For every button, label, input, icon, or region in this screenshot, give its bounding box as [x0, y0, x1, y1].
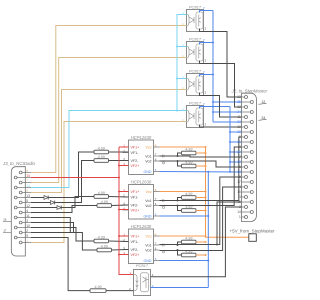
wire D2 to R2: [55, 161, 94, 203]
series resistor R6 4.99: [97, 244, 112, 252]
wire U4 collector to blue bus: [200, 107, 231, 109]
junction red: [118, 177, 120, 179]
wire J3 pin15 +5V red: [31, 177, 119, 179]
wire blue bus to J2: [230, 151, 242, 153]
wire pull-up to U6 Vo1: [178, 198, 182, 201]
svg-text:22: 22: [237, 130, 241, 134]
wire U7 Vo2 to J2 pin4: [160, 187, 242, 251]
J2 shell pin 24 mark: [259, 116, 267, 120]
J2 pin 7: [239, 155, 247, 159]
wire R3 to U6 VF1-: [109, 196, 129, 199]
J2 pin 9: [239, 135, 247, 139]
junction GND: [207, 260, 209, 262]
J3 pin 8: [19, 169, 31, 174]
wire blue bus to J2 pin24: [213, 111, 242, 113]
wire pull-up to +5V bus: [196, 165, 206, 167]
J2 pin 12: [237, 105, 247, 109]
svg-text:VF1-: VF1-: [131, 151, 140, 155]
svg-text:PC817: PC817: [189, 37, 202, 42]
junction blue bus: [212, 106, 214, 108]
wire J3 pin2 to R6: [31, 233, 97, 251]
J2 pin 10: [237, 125, 247, 129]
svg-text:Vo1: Vo1: [145, 199, 151, 203]
optocoupler U1 PC817: [181, 5, 204, 32]
wire cyan bus to U3 anode: [177, 78, 187, 80]
svg-text:3: 3: [239, 195, 241, 199]
pull-up resistor 4.99 (U5 Vo2): [182, 160, 197, 168]
svg-text:19: 19: [237, 160, 241, 164]
wire pull-up to +5V bus: [196, 254, 206, 256]
svg-text:HCPL2630: HCPL2630: [131, 179, 152, 184]
svg-text:18: 18: [237, 170, 241, 174]
svg-text:Vo1: Vo1: [145, 154, 151, 158]
junction: [177, 205, 179, 207]
svg-text:4.99: 4.99: [98, 155, 105, 159]
wire J3 pin7 to U2 LED (tan): [31, 58, 187, 183]
junction: [177, 244, 179, 246]
svg-text:6: 6: [26, 189, 28, 193]
series resistor R2 4.99: [94, 155, 109, 163]
opto-isolator U7 HCPL2630: [123, 224, 160, 264]
wire U7 Vo1 to J2 pin5: [160, 177, 242, 245]
wire U5 GND to J2 pin18 (GND): [160, 171, 242, 174]
blue bus B vertical: [229, 107, 231, 172]
bypass capacitor near U7 outputs: [161, 244, 166, 253]
red branch to chip anode: [119, 254, 129, 256]
J2 pin 11: [237, 115, 247, 119]
J2 pin 14: [237, 210, 253, 214]
J2 pin 1: [239, 215, 247, 219]
cyan bus vertical to U1: [177, 15, 187, 111]
J2 pin 17: [237, 180, 253, 184]
wire J3 pin12 to D3: [31, 207, 57, 209]
J3 pin 3: [19, 219, 31, 224]
red branch U5 VF1+: [119, 146, 129, 148]
J3 pin 11: [14, 214, 31, 219]
J3 pin 1: [19, 239, 31, 244]
junction cyan: [176, 46, 178, 48]
svg-text:1: 1: [204, 59, 206, 63]
pull-up resistor 4.99 (U5 Vo1): [182, 147, 197, 155]
svg-text:7: 7: [26, 179, 28, 183]
junction orange: [205, 210, 207, 212]
J3 pin 13: [14, 194, 31, 199]
series resistor R3 4.99: [94, 191, 109, 199]
wire pull-up to +5V bus: [196, 152, 206, 154]
optocoupler U2 PC817: [181, 37, 204, 64]
J2 pin 16: [237, 190, 253, 194]
J2 pin 5: [239, 175, 247, 179]
junction red: [118, 165, 120, 167]
svg-text:VF1+: VF1+: [131, 145, 140, 149]
pull-up resistor 4.99 (U6 Vo1): [182, 192, 197, 200]
J3 pin 5: [19, 199, 31, 204]
svg-text:VF1+: VF1+: [131, 190, 140, 194]
pull-up resistor 4.99 (U7 Vo1): [182, 236, 197, 244]
J2 pin 19: [237, 160, 253, 164]
svg-text:4.99: 4.99: [98, 235, 105, 239]
junction: [177, 155, 179, 157]
wire U6 GND to GND chain: [160, 215, 209, 217]
wire R5 to U7 VF1-: [109, 240, 129, 243]
J2 pin 18: [237, 170, 253, 174]
J2 pin 24: [237, 110, 253, 114]
svg-text:Vo2: Vo2: [145, 159, 151, 163]
junction GND: [207, 215, 209, 217]
J2 pin 8: [239, 145, 247, 149]
svg-text:11: 11: [26, 214, 30, 218]
svg-text:Vo1: Vo1: [145, 243, 151, 247]
wire J3 pin14 cyan to U4 anode: [31, 111, 187, 188]
wire J3 pin5 to D2: [31, 202, 51, 204]
junction blue: [229, 161, 231, 163]
junction blue: [229, 151, 231, 153]
wire D3 to R3: [61, 197, 94, 208]
wire D1 to R1: [48, 152, 94, 198]
J3 shell pin 17: [3, 229, 11, 233]
svg-text:8: 8: [26, 169, 28, 173]
red branch to chip anode: [119, 191, 129, 193]
pull-up resistor 4.99 (U6 Vo2): [182, 205, 197, 213]
svg-text:Vcc: Vcc: [146, 190, 152, 194]
svg-text:HCPL2630: HCPL2630: [131, 224, 152, 229]
svg-text:5: 5: [26, 199, 28, 203]
J2 pin 2: [239, 205, 247, 209]
wire U6 Vo1 to J2 pin9: [160, 137, 242, 201]
junction: [177, 249, 179, 251]
wire R7 to Q5 cathode: [106, 290, 134, 292]
wire pull-up to U6 Vo2: [178, 206, 182, 211]
svg-text:21: 21: [237, 140, 241, 144]
junction blue: [229, 141, 231, 143]
wire R1 to U5 VF1-: [109, 151, 129, 153]
J3 pin 12: [14, 204, 31, 209]
power port +5V_from_StepMaster: [230, 228, 276, 241]
svg-text:GND: GND: [144, 170, 152, 174]
svg-text:10: 10: [26, 224, 30, 228]
svg-text:VF2+: VF2+: [131, 253, 140, 257]
svg-text:20: 20: [237, 150, 241, 154]
J2 pin 25: [237, 100, 253, 104]
wire J3 pin10 to R5: [31, 228, 94, 242]
svg-text:VF1-: VF1-: [131, 195, 140, 199]
svg-text:Vcc: Vcc: [146, 234, 152, 238]
svg-text:PC817: PC817: [189, 69, 202, 74]
svg-text:9: 9: [239, 135, 241, 139]
J2 shell pin 12 mark: [259, 100, 267, 104]
svg-text:VF2-: VF2-: [131, 203, 140, 207]
wire R4 to U6 VF2-: [112, 204, 129, 207]
opto-isolator U6 HCPL2630: [123, 179, 160, 219]
J2 pin 21: [237, 140, 253, 144]
+5V_from_StepMaster orange bus: [206, 147, 249, 237]
bypass capacitor near U6 outputs: [161, 199, 166, 208]
wire pull-up to U7 Vo2: [178, 250, 182, 255]
wire blue bus to J2 pin25: [213, 101, 242, 103]
svg-text:14: 14: [26, 184, 30, 188]
svg-text:1: 1: [26, 239, 28, 243]
junction orange: [205, 197, 207, 199]
J3 pin 9: [14, 234, 31, 239]
svg-text:8: 8: [239, 145, 241, 149]
svg-text:17: 17: [3, 229, 7, 233]
svg-text:VF2+: VF2+: [131, 208, 140, 212]
svg-text:13: 13: [237, 95, 241, 99]
svg-text:10: 10: [237, 125, 241, 129]
J3 pin 10: [14, 224, 31, 229]
diode D1: [44, 196, 48, 200]
junction orange: [205, 254, 207, 256]
J2 pin 15: [237, 200, 253, 204]
junction: [216, 244, 218, 246]
junction GND: [207, 171, 209, 173]
svg-text:4.99: 4.99: [101, 244, 108, 248]
wire U5 Vo1 to J2 pin7: [160, 156, 242, 157]
svg-text:25: 25: [237, 100, 241, 104]
wire U6 Vcc to +5V bus: [160, 191, 206, 193]
svg-text:11: 11: [237, 115, 241, 119]
wire J3 pin8 to U1 LED (tan): [31, 26, 187, 173]
wire J3 pin4 to R4: [31, 206, 97, 213]
red branch to chip anode: [119, 235, 129, 237]
wire U3 emitter to J2 pin11: [200, 93, 242, 118]
svg-text:4: 4: [152, 273, 154, 277]
junction orange: [205, 191, 207, 193]
optocoupler Q5 PC817 (bottom): [134, 263, 151, 296]
svg-text:VF1-: VF1-: [131, 240, 140, 244]
svg-text:24: 24: [237, 110, 241, 114]
junction orange: [205, 165, 207, 167]
svg-text:HCPL2630: HCPL2630: [131, 135, 152, 140]
wire pull-up to +5V bus: [196, 210, 206, 212]
wire blue bus to J2: [230, 161, 242, 163]
J2 pin 23: [237, 120, 253, 124]
junction red: [118, 209, 120, 211]
wire U2 collector to blue bus: [200, 43, 214, 45]
wire cyan bus to U2 anode: [177, 46, 187, 48]
red bus vertical: [119, 147, 134, 275]
svg-text:4.99: 4.99: [185, 249, 192, 253]
series resistor R1 4.99: [94, 146, 109, 154]
junction orange: [205, 235, 207, 237]
wire U1 emitter to J2 pin13: [200, 29, 242, 98]
wire blue bus to J2: [230, 141, 242, 143]
svg-text:VF1+: VF1+: [131, 234, 140, 238]
svg-text:23: 23: [237, 120, 241, 124]
wire J3 pin9 to R7: [31, 238, 90, 291]
wire U4 emitter to J2 pin10: [200, 125, 242, 128]
wire pull-up to +5V bus: [196, 241, 206, 243]
wire pull-up to U5 Vo1: [178, 153, 182, 156]
wire Q5 collector to J2 pin2: [151, 207, 242, 277]
svg-text:Vcc: Vcc: [146, 145, 152, 149]
junction orange: [205, 241, 207, 243]
svg-text:4.99: 4.99: [98, 146, 105, 150]
wire U7 Vcc to +5V bus: [160, 235, 206, 237]
svg-text:4.99: 4.99: [185, 147, 192, 151]
svg-text:Vo2: Vo2: [145, 248, 151, 252]
svg-text:1: 1: [204, 27, 206, 31]
junction: [212, 101, 214, 103]
wire Q5 emitter to GND chain: [151, 287, 209, 289]
junction cyan: [176, 78, 178, 80]
wire R6 to U7 VF2-: [112, 249, 129, 252]
svg-text:6: 6: [239, 165, 241, 169]
svg-text:4.99: 4.99: [185, 192, 192, 196]
svg-text:9: 9: [26, 234, 28, 238]
svg-text:14: 14: [237, 210, 241, 214]
svg-text:PC817: PC817: [189, 101, 202, 106]
svg-text:4: 4: [239, 185, 241, 189]
wire U2 emitter to J2 pin12: [200, 61, 242, 108]
svg-text:12: 12: [26, 204, 30, 208]
J2 pin 6: [239, 165, 247, 169]
svg-text:VF2+: VF2+: [131, 164, 140, 168]
blue bus A vertical: [212, 11, 214, 123]
junction red: [118, 254, 120, 256]
connector J3_to_NCStudio DB15: [2, 161, 36, 256]
svg-text:VF2-: VF2-: [131, 248, 140, 252]
junction: [177, 200, 179, 202]
bypass capacitor near U5 outputs: [161, 155, 166, 164]
J2 pin 22: [237, 130, 253, 134]
junction cyan: [176, 110, 178, 112]
svg-text:2: 2: [26, 229, 28, 233]
wire U7 Vo1 branch to J2 pin15: [217, 202, 242, 245]
junction blue: [229, 131, 231, 133]
junction blue bus: [212, 42, 214, 44]
wire pull-up to U5 Vo2: [178, 161, 182, 166]
wire U1 collector to blue bus: [200, 11, 214, 13]
J3 pin 6: [19, 189, 31, 194]
svg-text:PC817: PC817: [189, 5, 202, 10]
svg-text:4.99: 4.99: [94, 285, 101, 289]
svg-text:1: 1: [204, 123, 206, 127]
junction: [212, 111, 214, 113]
series resistor R5 4.99: [94, 235, 109, 243]
svg-text:7: 7: [239, 155, 241, 159]
junction red: [118, 235, 120, 237]
svg-text:13: 13: [26, 194, 30, 198]
svg-text:1: 1: [204, 91, 206, 95]
opto-isolator U5 HCPL2630: [123, 135, 160, 175]
wire pull-up to U7 Vo1: [178, 242, 182, 245]
J3 pin 2: [19, 229, 31, 234]
wire U7 GND to GND chain: [160, 260, 209, 262]
svg-text:+5V_from_StepMaster: +5V_from_StepMaster: [230, 228, 276, 233]
svg-text:16: 16: [3, 218, 7, 222]
svg-text:Vo2: Vo2: [145, 204, 151, 208]
diode D2: [51, 201, 55, 205]
J2 pin 20: [237, 150, 253, 154]
J3 pin 4: [19, 209, 31, 214]
J3 pin 15: [14, 174, 31, 179]
svg-text:GND: GND: [144, 214, 152, 218]
junction: [177, 160, 179, 162]
svg-text:4.99: 4.99: [98, 191, 105, 195]
wire blue bus to J2: [230, 131, 242, 133]
wire J3 pin1 to U4 LED (tan): [31, 122, 187, 243]
svg-text:3: 3: [26, 219, 28, 223]
connector J2_to_StepMaster DB25: [231, 89, 268, 222]
J3 pin 7: [19, 179, 31, 184]
wire J3 pin11 stub: [31, 218, 70, 234]
series resistor R7 4.99: [90, 285, 106, 293]
optocoupler U3 PC817: [181, 69, 204, 96]
wire R2 to U5 VF2-: [109, 160, 129, 162]
wire J3 pin13 to D1: [31, 197, 44, 199]
wire J3 pin3 stub: [31, 223, 74, 234]
wire U5 Vcc to +5V bus: [160, 146, 206, 148]
pull-up resistor 4.99 (U7 Vo2): [182, 249, 197, 256]
wire J3 pin6 to U3 LED (tan): [31, 90, 187, 193]
series resistor R4 4.99: [97, 200, 112, 208]
svg-text:4.99: 4.99: [101, 200, 108, 204]
svg-text:15: 15: [26, 174, 30, 178]
svg-text:4.99: 4.99: [185, 236, 192, 240]
svg-text:4: 4: [26, 209, 28, 213]
junction GND: [229, 171, 231, 173]
optocoupler U4 PC817: [181, 101, 204, 128]
junction orange: [205, 152, 207, 154]
junction blue bus: [212, 74, 214, 76]
svg-text:J3_to_NCStudio: J3_to_NCStudio: [2, 161, 36, 166]
svg-text:16: 16: [237, 190, 241, 194]
junction red: [118, 191, 120, 193]
wire U5 Vo2 to J2 pin6: [160, 161, 242, 167]
GND chain vertical: [207, 172, 209, 288]
red branch to chip anode: [119, 165, 129, 167]
J2 pin 4: [239, 185, 247, 189]
J2 pin 13: [237, 95, 247, 99]
svg-text:1: 1: [239, 215, 241, 219]
red branch to chip anode: [119, 209, 129, 211]
svg-text:15: 15: [237, 200, 241, 204]
wire blue bus to J2 pin23: [213, 121, 242, 123]
svg-text:PC817: PC817: [136, 263, 149, 268]
J2 pin 3: [239, 195, 247, 199]
svg-text:5: 5: [239, 175, 241, 179]
wire U6 Vo2 to J2 pin8: [160, 147, 242, 206]
wire pull-up to +5V bus: [196, 197, 206, 199]
J3 shell pin 16: [3, 218, 11, 222]
J3 pin 14: [14, 184, 31, 189]
svg-text:17: 17: [237, 180, 241, 184]
diode D3: [57, 206, 61, 210]
wire U3 collector to blue bus: [200, 75, 214, 77]
junction orange: [205, 146, 207, 148]
svg-text:12: 12: [237, 105, 241, 109]
svg-text:VF2-: VF2-: [131, 159, 140, 163]
